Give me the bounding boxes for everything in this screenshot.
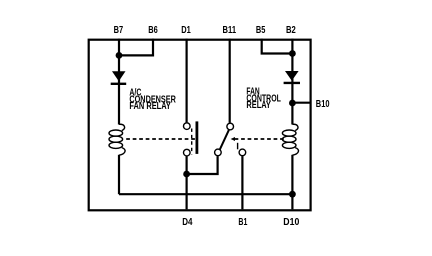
- svg-text:B6: B6: [148, 25, 158, 36]
- wire terminal B2 vertical: [291, 39, 293, 125]
- dashed actuation line from armature to fan control relay coil: [235, 138, 285, 140]
- wire terminal B1 vertical: [241, 156, 243, 209]
- SPDT NC circle: [215, 149, 222, 156]
- svg-text:B7: B7: [114, 25, 124, 36]
- SPDT common circle (fan control relay contact): [227, 123, 234, 130]
- wire terminal D1 vertical: [186, 39, 188, 123]
- wire coil bottom to ground bus: [118, 155, 120, 194]
- svg-text:D4: D4: [182, 217, 192, 228]
- svg-text:B2: B2: [286, 25, 296, 36]
- junction D4/NC contact: [183, 171, 190, 178]
- junction B7/B6: [116, 52, 123, 59]
- wire NC contact to D4: [187, 156, 218, 174]
- wire terminal B10 stub: [292, 102, 310, 104]
- coil fan control relay: [282, 124, 298, 155]
- wire terminal B11 vertical: [229, 39, 231, 123]
- SPDT armature (closed to NC side): [220, 130, 229, 150]
- svg-text:RELAY: RELAY: [246, 100, 271, 111]
- wire terminal B6 to B7: [120, 39, 153, 56]
- diode (fan control relay) cathode bar: [284, 82, 300, 84]
- svg-text:B10: B10: [316, 99, 330, 110]
- dashed actuation line from A/C relay coil to its contact: [126, 138, 196, 140]
- diode (fan control relay) anode: [285, 71, 299, 81]
- svg-text:D1: D1: [181, 25, 191, 36]
- wire coil bottom to ground bus (fan control relay): [291, 155, 293, 194]
- junction D10 node: [289, 191, 296, 198]
- diode (A/C condenser fan relay) anode: [112, 71, 126, 81]
- relay box outline: [89, 40, 311, 211]
- coil A/C condenser fan relay: [109, 124, 125, 155]
- contact top circle (A/C relay contact): [184, 123, 191, 130]
- svg-text:B11: B11: [223, 25, 237, 36]
- arrowhead on actuation line at armature: [231, 137, 235, 141]
- wire terminal D4 vertical: [186, 156, 188, 209]
- svg-text:B1: B1: [238, 217, 247, 228]
- svg-text:FAN RELAY: FAN RELAY: [129, 101, 171, 112]
- svg-text:D10: D10: [283, 217, 299, 228]
- contact bottom circle (A/C relay contact): [184, 149, 191, 156]
- ground bus wire: [119, 193, 292, 195]
- junction B5/B2: [289, 50, 296, 57]
- wire terminal B7 vertical: [118, 39, 120, 125]
- diode (A/C condenser fan relay) cathode bar: [111, 83, 127, 85]
- dashed contact link (A/C relay contact): [191, 129, 193, 155]
- wire terminal B5 to B2: [262, 39, 291, 54]
- wire terminal D10 vertical: [291, 194, 293, 209]
- SPDT NO circle: [239, 149, 246, 156]
- junction B10 node: [289, 100, 296, 107]
- svg-text:B5: B5: [256, 25, 266, 36]
- dashed contact link (fan control relay contact): [237, 143, 239, 150]
- contact bar (A/C relay contact): [195, 121, 198, 153]
